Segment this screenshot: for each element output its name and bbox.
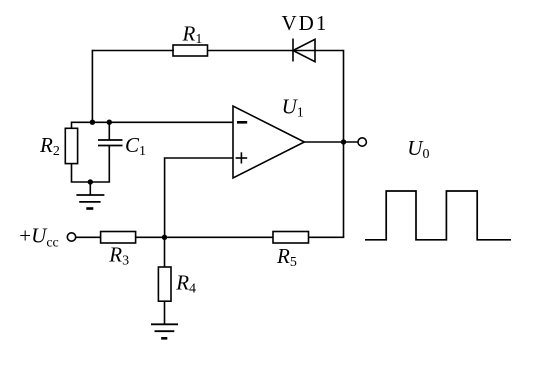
resistor R3	[101, 232, 136, 244]
svg-text:R5: R5	[276, 244, 297, 270]
svg-text:+Ucc: +Ucc	[19, 223, 58, 250]
op-amp U1	[233, 106, 304, 178]
svg-text:R1: R1	[182, 22, 203, 48]
junction dot left node	[90, 120, 95, 125]
svg-text:R2: R2	[39, 133, 60, 159]
wire R1 to diode	[208, 50, 294, 52]
input terminal circle +Ucc	[67, 233, 75, 241]
resistor R5	[273, 232, 309, 244]
ground below R4	[151, 324, 178, 338]
junction dot C1 top node	[107, 120, 112, 125]
wire op-amp output	[304, 141, 358, 143]
wire left vertical from top corner down to inverting node	[91, 50, 93, 123]
svg-text:R4: R4	[175, 271, 196, 297]
wire noninverting input	[165, 158, 233, 237]
resistor R2	[65, 122, 77, 183]
diode VD1	[293, 39, 315, 62]
svg-text:U0: U0	[407, 136, 429, 162]
resistor R1	[173, 45, 208, 56]
wire diode to right vertical rail	[293, 51, 344, 238]
capacitor C1	[98, 122, 123, 182]
junction dot bottom node	[162, 235, 167, 240]
wire R3 to R5	[136, 236, 274, 238]
svg-text:R3: R3	[108, 242, 129, 268]
output terminal circle	[358, 138, 366, 146]
wire inverting input (node row)	[72, 121, 234, 123]
wire R5 to right rail	[309, 236, 345, 238]
wire terminal to R3	[76, 236, 101, 238]
junction dot R2-C1 bottom	[88, 179, 93, 184]
wire top-left horizontal from corner to R1	[92, 50, 174, 52]
wire bottom of R2-C1	[71, 181, 110, 183]
junction dot output node	[341, 139, 346, 144]
ground below R2-C1	[76, 182, 104, 209]
svg-text:U1: U1	[282, 94, 304, 120]
svg-text:VD1: VD1	[282, 11, 329, 35]
resistor R4	[158, 237, 171, 324]
svg-text:C1: C1	[125, 133, 146, 159]
waveform U0 square wave	[365, 191, 511, 240]
